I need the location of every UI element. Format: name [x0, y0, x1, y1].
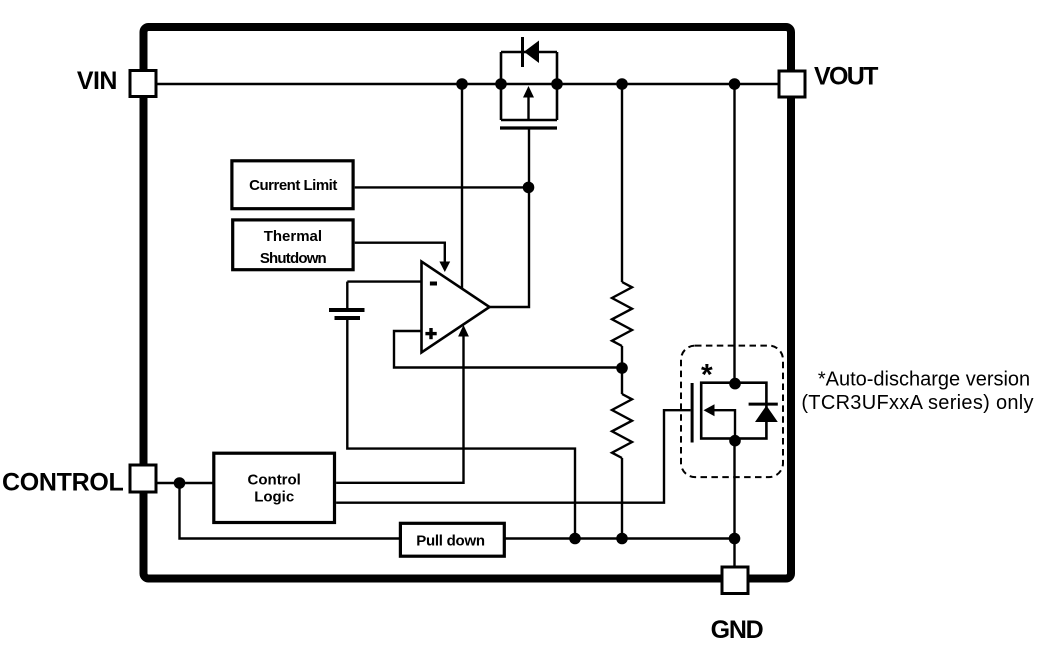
wire discharge transistor to GND pin — [733, 441, 735, 567]
op-amp U1 error amplifier — [422, 262, 490, 353]
transistor Q2 discharge NMOS — [692, 383, 766, 443]
note auto-discharge version — [801, 369, 1034, 415]
svg-text:Logic: Logic — [254, 488, 294, 505]
wire main rail VIN to VOUT — [157, 83, 778, 85]
svg-text:Shutdown: Shutdown — [260, 250, 327, 267]
wire op-amp output to Q1 gate — [489, 128, 529, 307]
wire inverting input — [347, 280, 422, 282]
svg-text:Control: Control — [248, 471, 301, 488]
transistor Q1 pass PMOS — [500, 52, 557, 128]
junction dot Q2 source node — [729, 435, 741, 447]
control logic block — [214, 453, 335, 522]
IC boundary box — [144, 27, 792, 579]
junction dot reference ground node — [569, 533, 581, 545]
diode D2 body diode of Q2 — [749, 404, 778, 422]
junction dot feedback node — [616, 362, 628, 374]
wire VOUT to discharge transistor — [733, 84, 735, 384]
junction dot divider ground node — [616, 533, 628, 545]
resistor R2 — [612, 394, 632, 539]
svg-text:*: * — [701, 359, 713, 392]
wire VIN supply to op-amp top — [461, 84, 463, 288]
wire non-inverting input feedback — [394, 331, 622, 368]
junction dot rail Q1 right — [551, 78, 563, 90]
junction dot rail discharge branch — [729, 78, 741, 90]
wire control pin to control logic — [157, 482, 214, 484]
thermal shutdown block — [233, 220, 353, 270]
wire control pin to pull down — [180, 483, 401, 539]
pin VIN — [130, 71, 156, 97]
junction dot rail resistor divider — [616, 78, 628, 90]
svg-text:VOUT: VOUT — [814, 63, 878, 91]
current limit block — [232, 161, 353, 209]
svg-text:GND: GND — [711, 616, 763, 644]
pull down block — [400, 523, 504, 556]
svg-text:Thermal: Thermal — [264, 228, 322, 245]
diode D1 body diode of Q1 — [523, 37, 540, 67]
svg-text:VIN: VIN — [77, 67, 117, 95]
wire control logic to discharge gate — [336, 410, 690, 503]
wire control logic enable to op-amp — [336, 325, 469, 483]
pin GND — [722, 567, 748, 594]
svg-text:Current Limit: Current Limit — [249, 177, 337, 194]
pin VOUT — [779, 71, 805, 97]
battery reference VREF — [329, 282, 365, 318]
junction dot control pin node — [174, 477, 186, 489]
svg-text:*Auto-discharge version: *Auto-discharge version — [818, 369, 1030, 391]
svg-text:(TCR3UFxxA series) only: (TCR3UFxxA series) only — [801, 392, 1034, 414]
pin CONTROL — [130, 465, 156, 492]
junction dot rail Q1 left — [495, 78, 507, 90]
wire reference to ground rail — [347, 320, 575, 539]
junction dot current limit gate line — [523, 182, 535, 194]
dashed auto-discharge option box — [681, 346, 783, 478]
junction dot Q2 drain node — [729, 378, 741, 390]
wire current limit to Q1 gate line — [355, 186, 529, 188]
svg-text:CONTROL: CONTROL — [2, 469, 124, 497]
junction dot discharge ground node — [729, 533, 741, 545]
wire thermal shutdown to op-amp — [355, 243, 451, 272]
resistor R1 — [612, 84, 632, 394]
wire pull down output rail — [504, 537, 734, 539]
svg-text:Pull down: Pull down — [416, 533, 485, 550]
junction dot rail to op-amp supply — [456, 78, 468, 90]
